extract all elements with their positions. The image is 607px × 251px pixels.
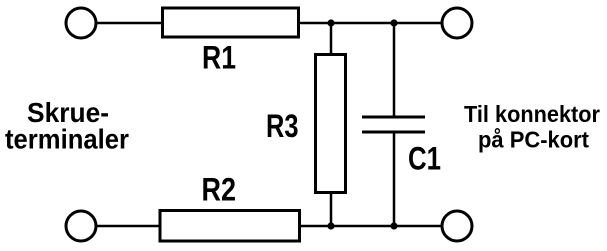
svg-text:R2: R2 bbox=[202, 172, 237, 208]
junction: node C1/bottom rail bbox=[390, 222, 397, 229]
junction: node C1/top rail bbox=[390, 19, 397, 26]
wire: bottom rail from left terminal to right terminal bbox=[96, 225, 442, 228]
svg-text:terminaler: terminaler bbox=[5, 124, 129, 155]
svg-text:Til konnektor: Til konnektor bbox=[464, 101, 600, 127]
capacitor C1 top plate bbox=[362, 116, 425, 119]
wire: C1 top lead bbox=[393, 23, 396, 117]
wire: top rail from left terminal to right terminal bbox=[96, 22, 442, 25]
terminal: screw terminal bottom-left bbox=[66, 211, 96, 241]
svg-text:R1: R1 bbox=[202, 40, 236, 76]
junction: node R3/bottom rail bbox=[327, 222, 334, 229]
resistor R1 bbox=[163, 8, 299, 37]
resistor R2 bbox=[160, 211, 300, 242]
terminal: connector bottom-right bbox=[442, 211, 472, 241]
svg-text:på PC-kort: på PC-kort bbox=[478, 127, 589, 153]
wire: R3 branch vertical bbox=[330, 23, 333, 226]
svg-text:R3: R3 bbox=[266, 108, 299, 144]
terminal: connector top-right bbox=[442, 8, 472, 38]
terminal: screw terminal top-left bbox=[66, 8, 96, 38]
capacitor C1 bottom plate bbox=[362, 131, 425, 134]
svg-text:C1: C1 bbox=[408, 141, 441, 177]
resistor R3 bbox=[316, 55, 346, 193]
junction: node R3/top rail bbox=[327, 19, 334, 26]
wire: C1 bottom lead bbox=[393, 132, 396, 226]
